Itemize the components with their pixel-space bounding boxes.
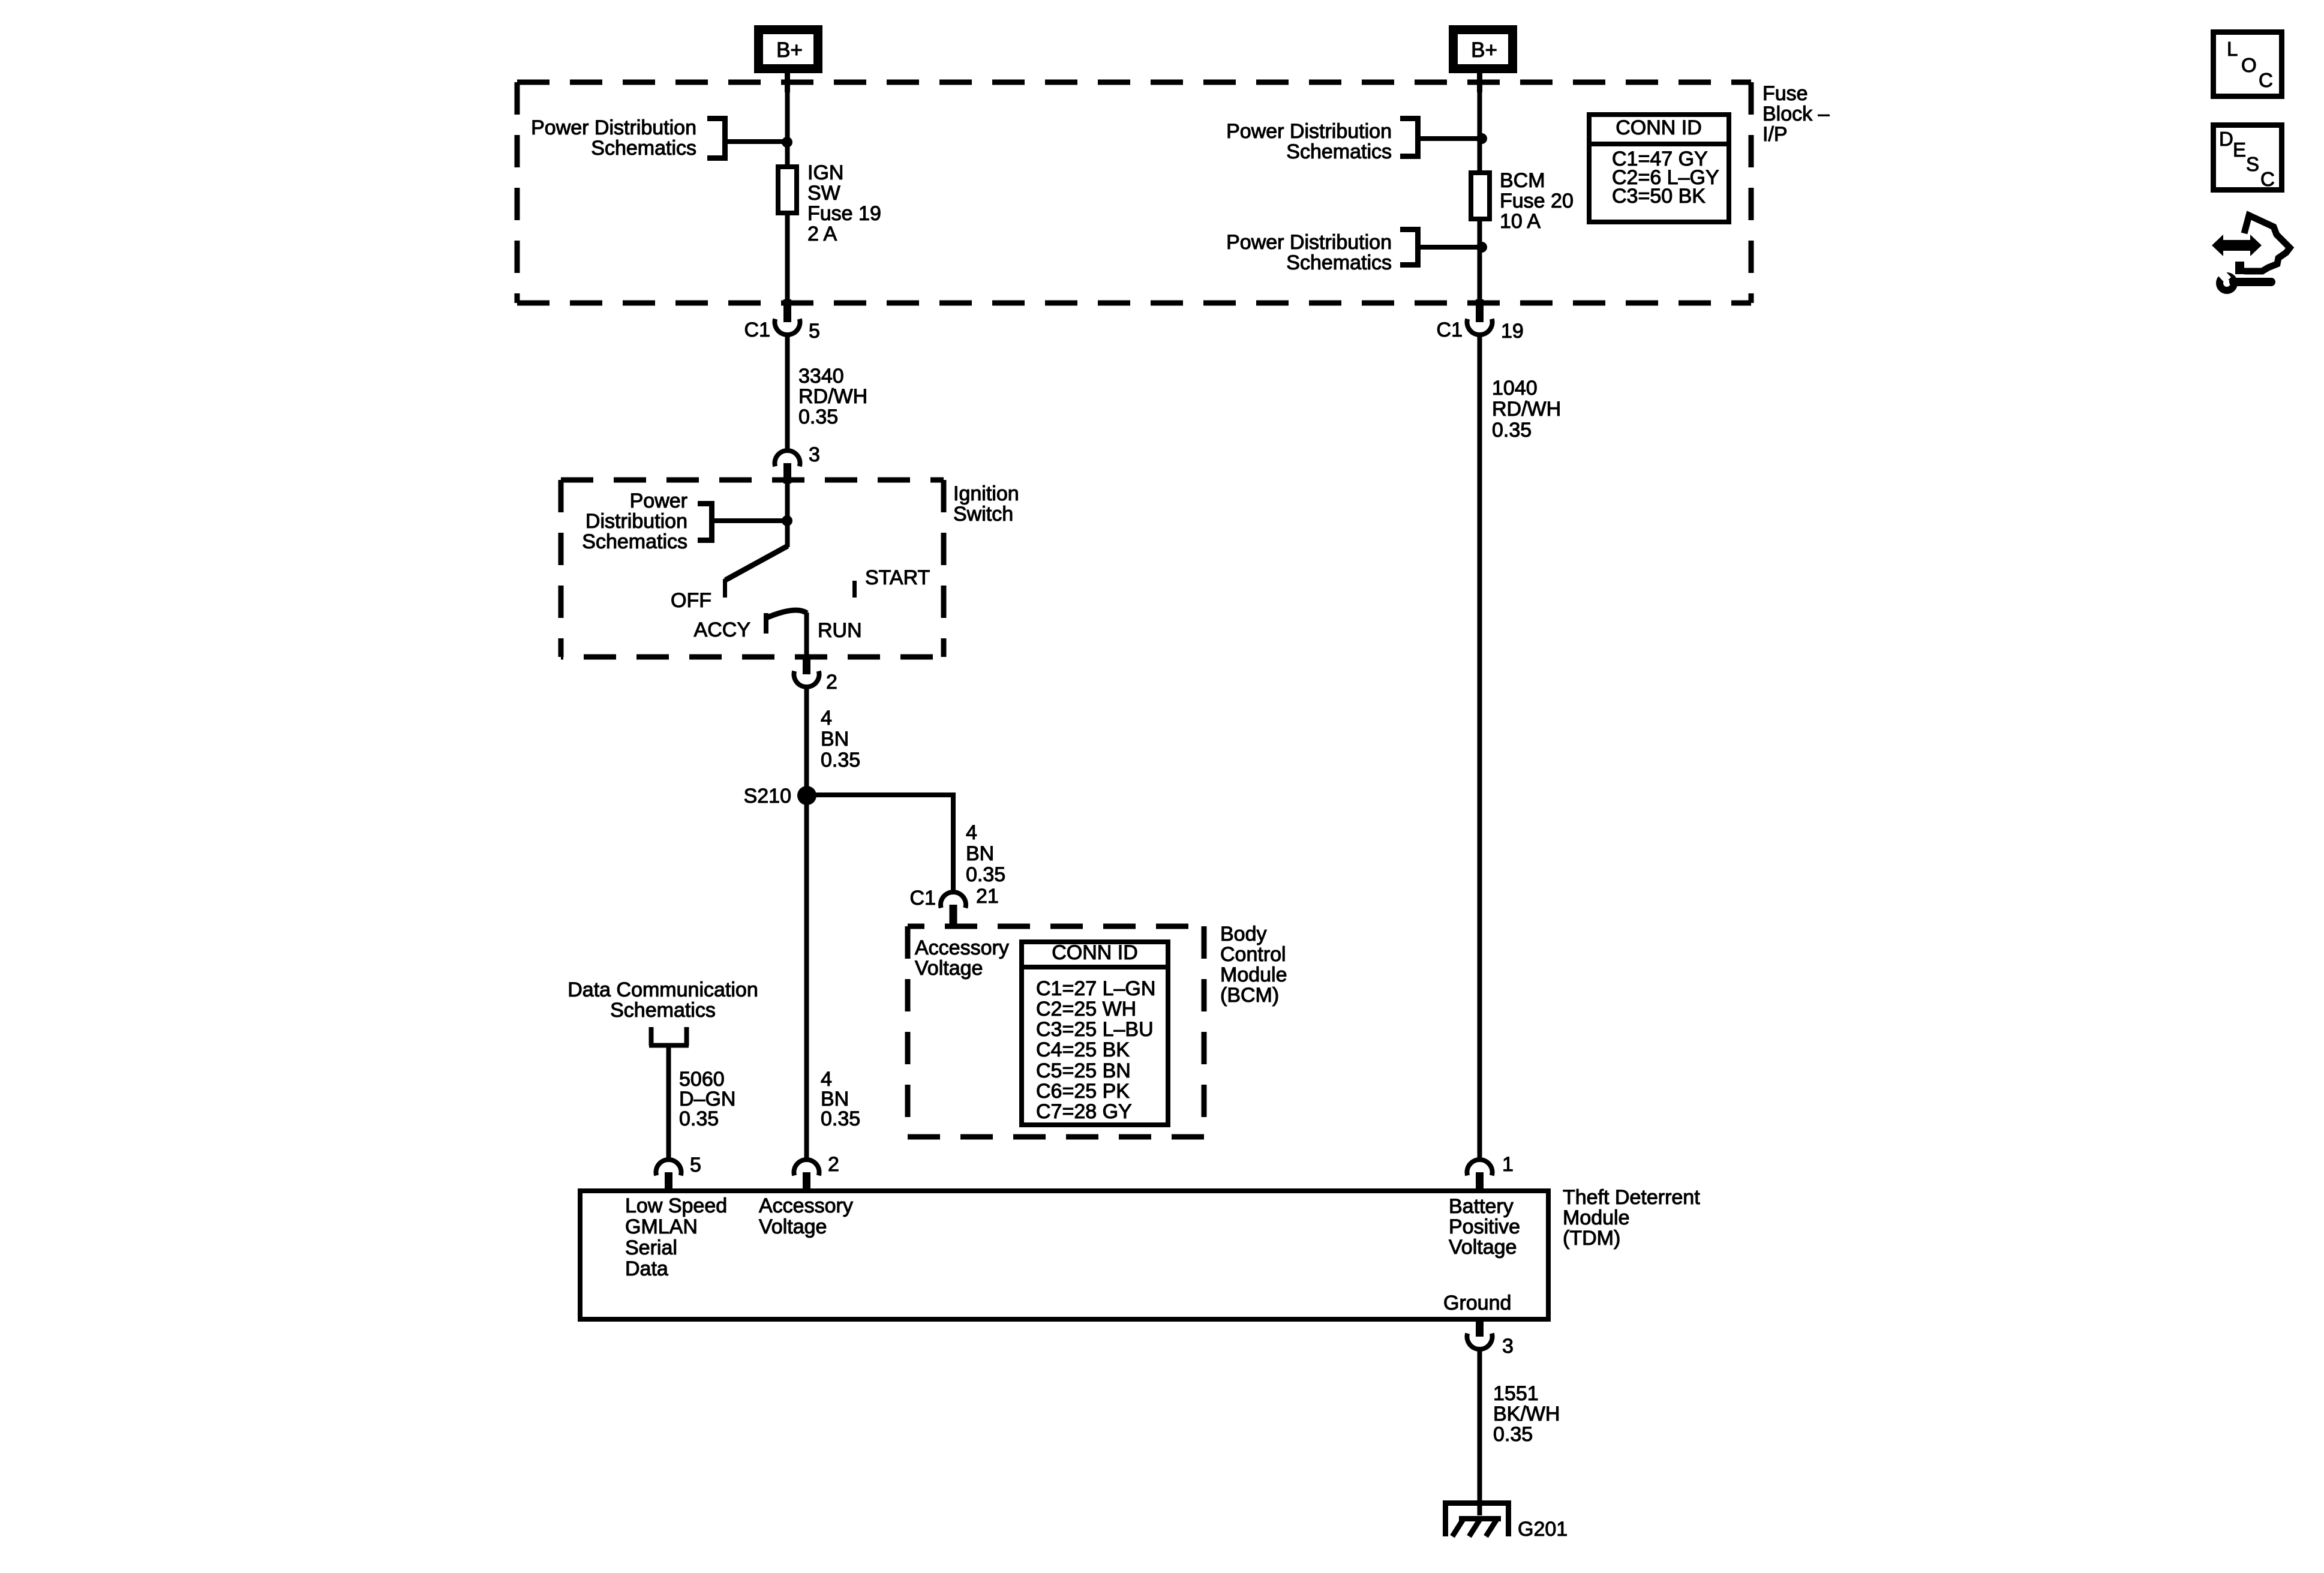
svg-text:RUN: RUN — [818, 619, 862, 642]
svg-text:C6=25 PK: C6=25 PK — [1036, 1080, 1130, 1103]
svg-text:RD/WH: RD/WH — [1492, 398, 1561, 421]
svg-text:E: E — [2233, 139, 2246, 161]
label: Low Speed GMLAN Serial Data — [625, 1194, 727, 1280]
svg-text:OFF: OFF — [671, 589, 711, 612]
svg-text:GMLAN: GMLAN — [625, 1215, 698, 1238]
table: CONN ID (BCM) — [1022, 941, 1168, 1125]
svg-text:C: C — [2259, 69, 2273, 91]
label: Body Control Module (BCM) — [1220, 923, 1287, 1007]
label: Accessory Voltage (BCM) — [915, 936, 1009, 980]
wire: stub to Power Distribution bracket (right lower) — [1421, 245, 1479, 250]
contact: OFF position — [723, 579, 727, 598]
contact: START position — [852, 581, 857, 598]
icon: wrench — [2215, 266, 2271, 290]
label: IGN SW Fuse 19 2 A — [807, 161, 881, 245]
splice S210 — [797, 786, 816, 805]
svg-text:4: 4 — [966, 821, 977, 844]
svg-text:O: O — [2241, 54, 2257, 76]
label+bracket: Power Distribution Schematics (right upper) — [1226, 116, 1421, 163]
svg-text:Body: Body — [1220, 923, 1267, 945]
icon: DESC box — [2214, 125, 2282, 191]
svg-text:Switch: Switch — [953, 503, 1013, 526]
svg-text:Power Distribution: Power Distribution — [1226, 231, 1392, 254]
label: RUN — [818, 619, 862, 642]
wire: circuit 1551 to ground — [1478, 1348, 1482, 1515]
svg-text:Accessory: Accessory — [759, 1194, 853, 1217]
label: OFF — [671, 589, 711, 612]
svg-text:S: S — [2246, 153, 2259, 175]
svg-text:BN: BN — [821, 728, 849, 751]
svg-text:1040: 1040 — [1492, 377, 1538, 400]
label: START — [865, 566, 930, 589]
svg-text:Accessory: Accessory — [915, 936, 1009, 959]
svg-text:Schematics: Schematics — [1286, 140, 1392, 163]
svg-text:C1=27 L–GN: C1=27 L–GN — [1036, 977, 1155, 1000]
svg-text:0.35: 0.35 — [966, 863, 1005, 886]
svg-text:0.35: 0.35 — [679, 1107, 719, 1130]
svg-text:Fuse: Fuse — [1762, 82, 1808, 105]
wire: fuse 19 to connector C1-5 — [785, 215, 790, 300]
label: 3340 RD/WH 0.35 — [798, 365, 867, 428]
svg-text:Voltage: Voltage — [759, 1215, 827, 1238]
theft deterrent module box — [580, 1191, 1548, 1319]
svg-text:(BCM): (BCM) — [1220, 984, 1279, 1007]
svg-text:I/P: I/P — [1762, 123, 1788, 146]
svg-text:Power: Power — [630, 490, 687, 512]
connector C1 pin 5 (fuse block output) — [775, 299, 800, 335]
wire: circuit 4 BN to TDM — [804, 795, 809, 1160]
label: S210 — [744, 785, 791, 807]
svg-text:3340: 3340 — [798, 365, 844, 388]
svg-text:CONN ID: CONN ID — [1616, 116, 1702, 139]
svg-text:C3=50 BK: C3=50 BK — [1612, 185, 1706, 208]
fuse block - I/P dashed outline box — [517, 82, 1751, 303]
svg-text:C7=28 GY: C7=28 GY — [1036, 1100, 1132, 1123]
wire: B+ feed down to IGN SW fuse — [785, 90, 790, 167]
svg-text:(TDM): (TDM) — [1563, 1227, 1620, 1250]
label: pin 3 — [809, 443, 820, 466]
connector pin 3 (TDM ground output) — [1467, 1319, 1493, 1349]
svg-text:C1: C1 — [1437, 319, 1463, 341]
wire: RUN contact down to box edge — [804, 613, 809, 658]
svg-text:Power Distribution: Power Distribution — [531, 116, 696, 139]
svg-text:BN: BN — [966, 842, 994, 865]
node: junction above BCM fuse — [1476, 133, 1487, 144]
svg-text:Data: Data — [625, 1257, 668, 1280]
switch blade wire to OFF position — [725, 546, 788, 580]
label: G201 — [1518, 1518, 1568, 1541]
svg-text:B+: B+ — [1471, 38, 1497, 62]
svg-text:C3=25 L–BU: C3=25 L–BU — [1036, 1018, 1154, 1041]
svg-text:2 A: 2 A — [807, 223, 837, 245]
icon: double arrow — [2212, 235, 2262, 256]
svg-text:C: C — [2260, 168, 2275, 190]
svg-text:5: 5 — [809, 320, 820, 343]
svg-text:Battery: Battery — [1449, 1195, 1514, 1218]
icon: schematic silhouette — [2235, 215, 2290, 274]
svg-text:1551: 1551 — [1493, 1382, 1539, 1405]
bracket: data communication pick-up — [649, 1027, 689, 1046]
wire: circuit 3340 — [785, 334, 790, 451]
label: C1 / 19 — [1437, 319, 1524, 343]
label: 4 BN 0.35 (upper) — [821, 707, 860, 772]
connector pin 2 (TDM, accessory voltage) — [794, 1160, 819, 1191]
label: 1551 BK/WH 0.35 — [1493, 1382, 1560, 1446]
fuse F1: IGN SW Fuse 19 2A — [778, 167, 797, 213]
svg-text:0.35: 0.35 — [798, 406, 838, 428]
label: Theft Deterrent Module (TDM) — [1563, 1186, 1700, 1250]
svg-text:C4=25 BK: C4=25 BK — [1036, 1038, 1130, 1061]
fuse F2: BCM Fuse 20 10A — [1471, 173, 1490, 219]
table: CONN ID (fuse block) — [1589, 115, 1729, 222]
connector pin 3 (ignition switch input) — [775, 451, 800, 484]
svg-text:Ignition: Ignition — [953, 482, 1019, 505]
svg-text:Voltage: Voltage — [1449, 1236, 1517, 1259]
icon: LOC box — [2214, 32, 2282, 97]
svg-text:0.35: 0.35 — [1493, 1423, 1533, 1446]
label: Accessory Voltage (TDM) — [759, 1194, 853, 1238]
svg-text:CONN ID: CONN ID — [1052, 941, 1138, 964]
label+bracket: Power Distribution Schematics (fuse block left) — [531, 116, 728, 161]
svg-text:START: START — [865, 566, 930, 589]
label: 4 BN 0.35 (lower) — [821, 1068, 860, 1130]
wire: BCM fuse to connector C1-19 — [1478, 221, 1482, 300]
svg-text:Fuse 20: Fuse 20 — [1500, 190, 1574, 212]
body control module dashed outline box — [908, 926, 1204, 1137]
svg-text:2: 2 — [828, 1153, 839, 1176]
pin: B+ into Fuse Block (right) — [1477, 73, 1482, 92]
label: 5060 D-GN 0.35 — [679, 1068, 735, 1130]
connector pin 5 (TDM, serial data) — [656, 1160, 681, 1191]
svg-text:3: 3 — [1502, 1335, 1514, 1358]
wire: circuit 5060 D-GN — [666, 1046, 671, 1160]
svg-text:L: L — [2227, 38, 2238, 60]
svg-text:ACCY: ACCY — [694, 619, 750, 641]
pin: B+ into Fuse Block (left) — [785, 73, 790, 92]
svg-text:RD/WH: RD/WH — [798, 385, 867, 408]
label: ACCY — [694, 619, 750, 641]
label: C1 / 5 — [744, 319, 820, 343]
svg-text:Control: Control — [1220, 943, 1286, 966]
wire: B+ feed down to BCM fuse — [1478, 90, 1482, 173]
label: Ground (TDM) — [1443, 1292, 1511, 1314]
svg-text:G201: G201 — [1518, 1518, 1568, 1541]
svg-text:B+: B+ — [776, 38, 803, 62]
label: Data Communication Schematics — [568, 978, 758, 1022]
wire: circuit 1040 — [1478, 334, 1482, 1160]
label: BCM Fuse 20 10 A — [1500, 169, 1574, 233]
svg-text:Distribution: Distribution — [585, 510, 687, 533]
svg-text:IGN: IGN — [807, 161, 843, 184]
svg-text:Ground: Ground — [1443, 1292, 1511, 1314]
connector pin 2 (ignition switch output) — [794, 656, 819, 687]
svg-text:Theft Deterrent: Theft Deterrent — [1563, 1186, 1700, 1209]
svg-text:Data Communication: Data Communication — [568, 978, 758, 1001]
wire: switch common down from pin 3 — [785, 484, 790, 547]
label: pin 5 (TDM) — [690, 1154, 701, 1176]
svg-text:Block –: Block – — [1762, 103, 1830, 125]
svg-text:Fuse 19: Fuse 19 — [807, 202, 881, 225]
connector pin 1 (TDM, battery voltage) — [1467, 1160, 1493, 1191]
label: pin 2 (TDM) — [828, 1153, 839, 1176]
svg-text:0.35: 0.35 — [1492, 419, 1532, 442]
svg-text:C1: C1 — [910, 887, 936, 909]
node: junction at IGN SW fuse feed — [782, 137, 792, 148]
svg-text:Schematics: Schematics — [591, 137, 696, 160]
wire: stub to Power Distribution bracket (left) — [728, 139, 787, 144]
connector C1 pin 21 (BCM input) — [941, 892, 966, 926]
svg-text:Module: Module — [1563, 1206, 1630, 1229]
svg-text:Low Speed: Low Speed — [625, 1194, 727, 1217]
svg-text:C1: C1 — [744, 319, 770, 341]
svg-text:Serial: Serial — [625, 1236, 677, 1259]
label: 1040 RD/WH 0.35 — [1492, 377, 1561, 442]
svg-text:S210: S210 — [744, 785, 791, 807]
power symbol B+ (battery feed, right) — [1454, 30, 1513, 69]
svg-text:Module: Module — [1220, 963, 1287, 986]
svg-text:BK/WH: BK/WH — [1493, 1403, 1560, 1425]
svg-text:Voltage: Voltage — [915, 957, 983, 980]
svg-text:C5=25 BN: C5=25 BN — [1036, 1059, 1131, 1082]
svg-text:0.35: 0.35 — [821, 749, 860, 772]
label: Fuse Block - I/P — [1762, 82, 1830, 146]
wire: circuit 4 BN upper segment — [804, 686, 809, 795]
svg-text:C2=25 WH: C2=25 WH — [1036, 998, 1136, 1020]
wire: stub bracket to switch common — [714, 518, 787, 523]
svg-text:1: 1 — [1502, 1153, 1514, 1176]
label+bracket: Power Distribution Schematics (right lower) — [1226, 227, 1421, 274]
ground symbol G201 — [1443, 1500, 1511, 1536]
svg-text:Schematics: Schematics — [1286, 251, 1392, 274]
node: junction below BCM fuse — [1476, 242, 1487, 253]
svg-text:10 A: 10 A — [1500, 210, 1541, 233]
label: pin 1 (TDM) — [1502, 1153, 1514, 1176]
connector C1 pin 19 (fuse block output) — [1467, 299, 1493, 335]
svg-text:Schematics: Schematics — [582, 530, 687, 553]
svg-text:D: D — [2219, 128, 2233, 150]
svg-text:Power Distribution: Power Distribution — [1226, 120, 1392, 143]
svg-text:BCM: BCM — [1500, 169, 1545, 192]
label: pin 2 (ignition output) — [826, 671, 837, 694]
svg-text:Positive: Positive — [1449, 1215, 1520, 1238]
label: Battery Positive Voltage (TDM) — [1449, 1195, 1520, 1259]
svg-text:2: 2 — [826, 671, 837, 694]
label+bracket: Power Distribution Schematics (ignition switch) — [582, 490, 714, 553]
wire: S210 branch to BCM — [807, 795, 953, 892]
ignition switch dashed outline box — [561, 480, 944, 657]
svg-text:Schematics: Schematics — [610, 999, 716, 1022]
svg-text:5: 5 — [690, 1154, 701, 1176]
wire: stub to Power Distribution bracket (right upper) — [1421, 136, 1479, 141]
svg-text:4: 4 — [821, 707, 832, 730]
svg-text:3: 3 — [809, 443, 820, 466]
svg-text:19: 19 — [1501, 320, 1524, 343]
svg-text:21: 21 — [976, 885, 999, 908]
label: Ignition Switch — [953, 482, 1019, 526]
svg-text:0.35: 0.35 — [821, 1107, 860, 1130]
label: pin 3 (TDM ground) — [1502, 1335, 1514, 1358]
power symbol B+ (battery feed, left) — [759, 30, 818, 69]
svg-text:SW: SW — [807, 182, 840, 205]
label: C1 / 21 — [910, 885, 999, 909]
label: 4 BN 0.35 (branch) — [966, 821, 1005, 886]
node: switch common junction — [782, 515, 792, 526]
contact: ACCY position — [766, 610, 807, 634]
